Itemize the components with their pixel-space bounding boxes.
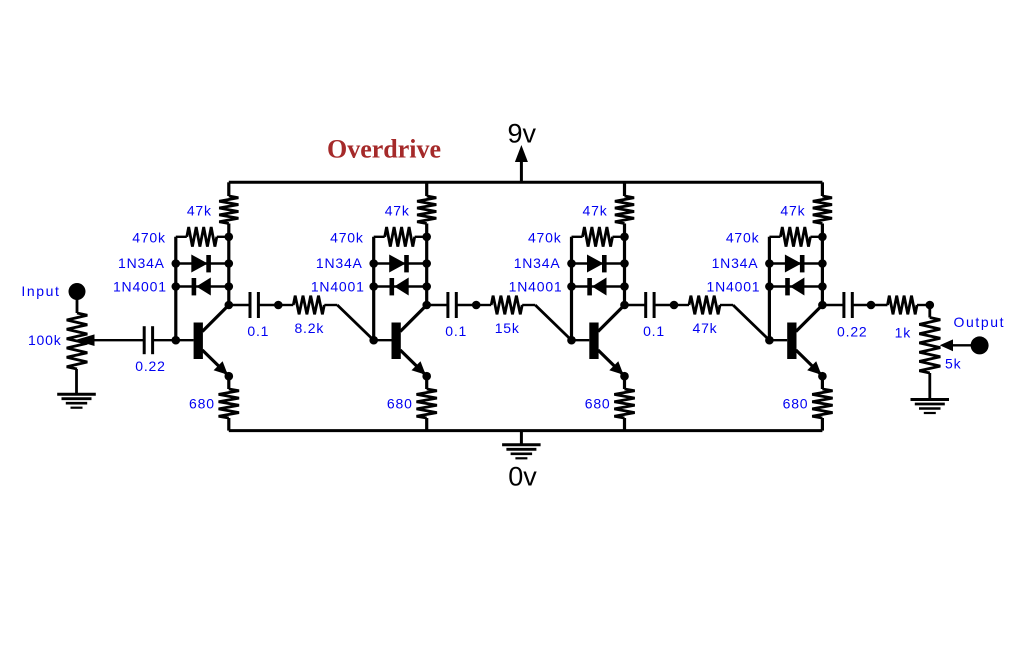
stage 1 feedback left line wire <box>174 237 177 340</box>
input jack <box>69 283 86 300</box>
node stage 4 emitter <box>818 372 827 381</box>
wire coupling resistor to stage 4 base <box>720 304 733 306</box>
svg-text:0.1: 0.1 <box>643 323 665 339</box>
wire coupling cap to node (stage 3-4) <box>654 304 674 306</box>
node stage 4 1N34A anode <box>765 259 774 268</box>
svg-text:0.1: 0.1 <box>247 323 269 339</box>
stage 3: diode 1N4001 (feedback) <box>572 285 625 287</box>
node stage 2 1N4001 right <box>422 282 431 291</box>
stage 4: resistor 680 (emitter) <box>821 376 824 389</box>
wire node to 1k resistor <box>871 304 888 306</box>
wire 1k to 5k pot <box>917 304 930 306</box>
wire coupling resistor to stage 2 base <box>324 304 337 306</box>
transistor Q1 <box>194 323 203 360</box>
wire stage 1 collector to coupling cap <box>229 304 250 306</box>
resistor 8.2k (stage 1-2 coupling) <box>293 296 324 315</box>
stage 1: resistor 470k (feedback) <box>176 236 187 238</box>
node stage 1 470k/collector junction <box>225 233 234 242</box>
wire node to resistor (stage 1-2) <box>278 304 293 306</box>
stage 2: diode 1N4001 (feedback) <box>374 285 427 287</box>
node stage 3 1N4001 left <box>567 282 576 291</box>
svg-text:470k: 470k <box>132 230 166 246</box>
ground symbol (0v) <box>520 431 523 444</box>
stage 2: diode 1N34A (feedback) <box>374 262 427 264</box>
node 1k / 5k pot junction <box>926 301 935 310</box>
stage 1: resistor 47k (collector load) <box>227 182 230 196</box>
stage 4: resistor 47k (collector load) <box>821 182 824 196</box>
svg-text:9v: 9v <box>508 119 537 149</box>
node stage 1 1N34A anode <box>172 259 181 268</box>
wire node to resistor (stage 3-4) <box>674 304 689 306</box>
transistor Q2 <box>392 323 401 360</box>
stage 1: diode 1N34A (feedback) <box>176 262 229 264</box>
svg-text:0.22: 0.22 <box>135 358 165 374</box>
pot wiper arrow (output) <box>953 344 972 346</box>
node stage 3 collector <box>620 301 629 310</box>
svg-text:680: 680 <box>585 396 611 412</box>
wire coupling cap to node (stage 2-3) <box>456 304 476 306</box>
transistor Q3 <box>589 323 598 360</box>
svg-text:8.2k: 8.2k <box>294 320 324 336</box>
stage 2: resistor 680 (emitter) <box>425 376 428 389</box>
ground (input pot) <box>57 393 96 396</box>
svg-text:Output: Output <box>954 314 1006 330</box>
node stage 4 collector <box>818 301 827 310</box>
node stage 4 1N4001 left <box>765 282 774 291</box>
svg-text:680: 680 <box>783 396 809 412</box>
stage 4 collector line wire <box>821 237 824 305</box>
node stage 2 470k/collector junction <box>422 233 431 242</box>
stage 3: resistor 680 (emitter) <box>623 376 626 389</box>
ground (output pot) <box>911 398 950 401</box>
svg-text:470k: 470k <box>528 230 562 246</box>
output jack <box>971 336 989 354</box>
node stage 3 emitter <box>620 372 629 381</box>
svg-text:1N34A: 1N34A <box>514 255 561 271</box>
wire input cap to Q1 base <box>153 339 176 341</box>
stage 2 feedback left line wire <box>372 237 375 340</box>
svg-text:0.1: 0.1 <box>445 323 467 339</box>
stage 2: resistor 47k (collector load) <box>425 182 428 196</box>
wire coupling resistor to stage 3 base <box>522 304 535 306</box>
node stage 1 1N34A cathode <box>225 259 234 268</box>
9v supply arrow <box>520 160 523 182</box>
node stage 1 1N4001 left <box>172 282 181 291</box>
node stage 2 1N34A anode <box>369 259 378 268</box>
node stage 2 emitter <box>422 372 431 381</box>
node stage 4 base <box>765 336 774 345</box>
svg-text:47k: 47k <box>780 203 805 219</box>
wire output cap to node <box>852 304 871 306</box>
svg-text:1k: 1k <box>895 325 912 341</box>
svg-text:1N4001: 1N4001 <box>707 279 761 295</box>
svg-text:1N4001: 1N4001 <box>311 279 365 295</box>
wire node to resistor (stage 2-3) <box>476 304 491 306</box>
stage 4 feedback left line wire <box>768 237 771 340</box>
svg-text:47k: 47k <box>693 320 718 336</box>
svg-text:47k: 47k <box>583 203 608 219</box>
stage 3: resistor 470k (feedback) <box>572 236 583 238</box>
resistor 47k (stage 3-4 coupling) <box>689 296 720 315</box>
stage 3: diode 1N34A (feedback) <box>572 262 625 264</box>
wire stage 2 collector to coupling cap <box>427 304 448 306</box>
svg-text:1N34A: 1N34A <box>118 255 165 271</box>
wire stage 1 base <box>176 339 194 341</box>
node after coupling cap (stage 3-4) <box>670 301 679 310</box>
bottom rail (0v) wire <box>229 429 823 432</box>
transistor Q4 <box>787 323 796 360</box>
svg-text:1N4001: 1N4001 <box>113 279 167 295</box>
node stage 3 470k/collector junction <box>620 233 629 242</box>
wire input jack to pot <box>76 299 79 313</box>
svg-text:Overdrive: Overdrive <box>327 135 441 164</box>
pot wiper arrow (input) <box>94 339 144 341</box>
node stage 4 1N34A cathode <box>818 259 827 268</box>
node after coupling cap (stage 2-3) <box>472 301 481 310</box>
stage 3 collector line wire <box>623 237 626 305</box>
node stage 4 470k/collector junction <box>818 233 827 242</box>
stage 1: diode 1N4001 (feedback) <box>176 285 229 287</box>
node stage 2 base <box>369 336 378 345</box>
capacitor 0.1 (stage 2-3 coupling) <box>446 292 449 318</box>
wire stage 4 collector to output cap <box>822 304 844 306</box>
wire stage 3 base <box>572 339 590 341</box>
node stage 1 1N4001 right <box>225 282 234 291</box>
svg-text:1N34A: 1N34A <box>316 255 363 271</box>
svg-text:47k: 47k <box>385 203 410 219</box>
node stage 3 base <box>567 336 576 345</box>
capacitor 0.22 (output) <box>842 292 845 318</box>
potentiometer 5k (output) <box>928 305 931 318</box>
stage 4: diode 1N34A (feedback) <box>769 262 822 264</box>
wire 5k pot to ground <box>928 373 931 399</box>
stage 1 collector line wire <box>227 237 230 305</box>
node stage 4 1N4001 right <box>818 282 827 291</box>
svg-text:100k: 100k <box>28 332 62 348</box>
svg-text:680: 680 <box>387 396 413 412</box>
node stage 1 collector <box>225 301 234 310</box>
stage 2 collector line wire <box>425 237 428 305</box>
svg-text:0v: 0v <box>508 462 537 492</box>
stage 3: resistor 47k (collector load) <box>623 182 626 196</box>
potentiometer 100k <box>67 313 88 369</box>
wire stage 3 collector to coupling cap <box>625 304 646 306</box>
node stage 1 emitter <box>225 372 234 381</box>
svg-text:47k: 47k <box>187 203 212 219</box>
stage 2: resistor 470k (feedback) <box>374 236 385 238</box>
node stage 2 1N4001 left <box>369 282 378 291</box>
wire pot to ground <box>75 369 78 394</box>
svg-text:0.22: 0.22 <box>837 324 867 340</box>
node stage 2 1N34A cathode <box>422 259 431 268</box>
svg-text:470k: 470k <box>330 230 364 246</box>
stage 4: resistor 470k (feedback) <box>769 236 780 238</box>
svg-text:680: 680 <box>189 396 215 412</box>
svg-text:1N34A: 1N34A <box>712 255 759 271</box>
wire coupling cap to node (stage 1-2) <box>258 304 278 306</box>
capacitor 0.1 (stage 3-4 coupling) <box>644 292 647 318</box>
stage 4: diode 1N4001 (feedback) <box>769 285 822 287</box>
wire stage 4 base <box>769 339 787 341</box>
node stage 3 1N4001 right <box>620 282 629 291</box>
capacitor 0.1 (stage 1-2 coupling) <box>249 292 252 318</box>
svg-text:Input: Input <box>21 283 60 299</box>
resistor 15k (stage 2-3 coupling) <box>491 296 522 315</box>
svg-text:1N4001: 1N4001 <box>509 279 563 295</box>
stage 1: resistor 680 (emitter) <box>227 376 230 389</box>
node stage 3 1N34A anode <box>567 259 576 268</box>
svg-text:470k: 470k <box>726 230 760 246</box>
capacitor 0.22 (input) <box>143 326 146 354</box>
top power rail (9v) wire <box>229 181 823 184</box>
svg-text:15k: 15k <box>495 320 520 336</box>
stage 3 feedback left line wire <box>570 237 573 340</box>
node after output cap <box>867 301 876 310</box>
wire stage 2 base <box>374 339 392 341</box>
node stage 2 collector <box>422 301 431 310</box>
node stage 3 1N34A cathode <box>620 259 629 268</box>
resistor 1k (output) <box>888 296 918 315</box>
svg-text:5k: 5k <box>945 356 962 372</box>
node stage 1 base <box>172 336 181 345</box>
node after coupling cap (stage 1-2) <box>274 301 283 310</box>
